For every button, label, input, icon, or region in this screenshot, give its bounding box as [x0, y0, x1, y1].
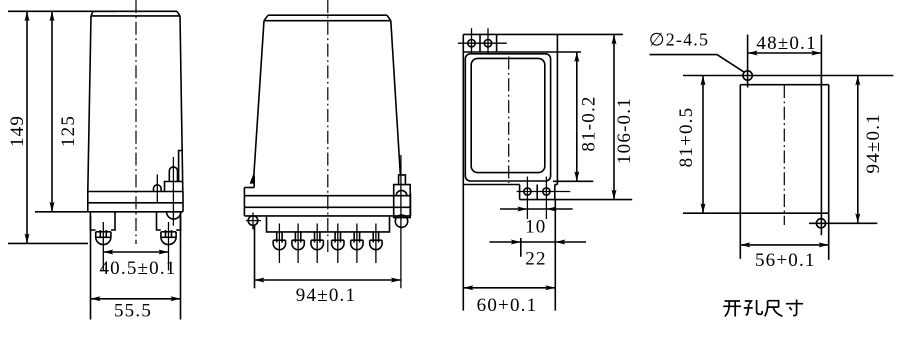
svg-text:60+0.1: 60+0.1 [477, 295, 538, 316]
svg-text:125: 125 [58, 115, 79, 147]
svg-text:149: 149 [7, 115, 28, 147]
svg-text:94±0.1: 94±0.1 [863, 113, 884, 173]
svg-text:10: 10 [525, 216, 546, 237]
svg-text:81+0.5: 81+0.5 [676, 107, 697, 168]
svg-text:94±0.1: 94±0.1 [296, 285, 356, 306]
svg-text:81-0.2: 81-0.2 [579, 95, 600, 151]
svg-text:40.5±0.1: 40.5±0.1 [99, 258, 176, 279]
svg-text:48±0.1: 48±0.1 [756, 33, 816, 54]
svg-text:22: 22 [525, 248, 546, 269]
svg-text:106-0.1: 106-0.1 [614, 97, 635, 164]
svg-text:55.5: 55.5 [114, 300, 152, 321]
svg-text:∅2-4.5: ∅2-4.5 [649, 29, 709, 49]
svg-text:56+0.1: 56+0.1 [755, 250, 816, 271]
